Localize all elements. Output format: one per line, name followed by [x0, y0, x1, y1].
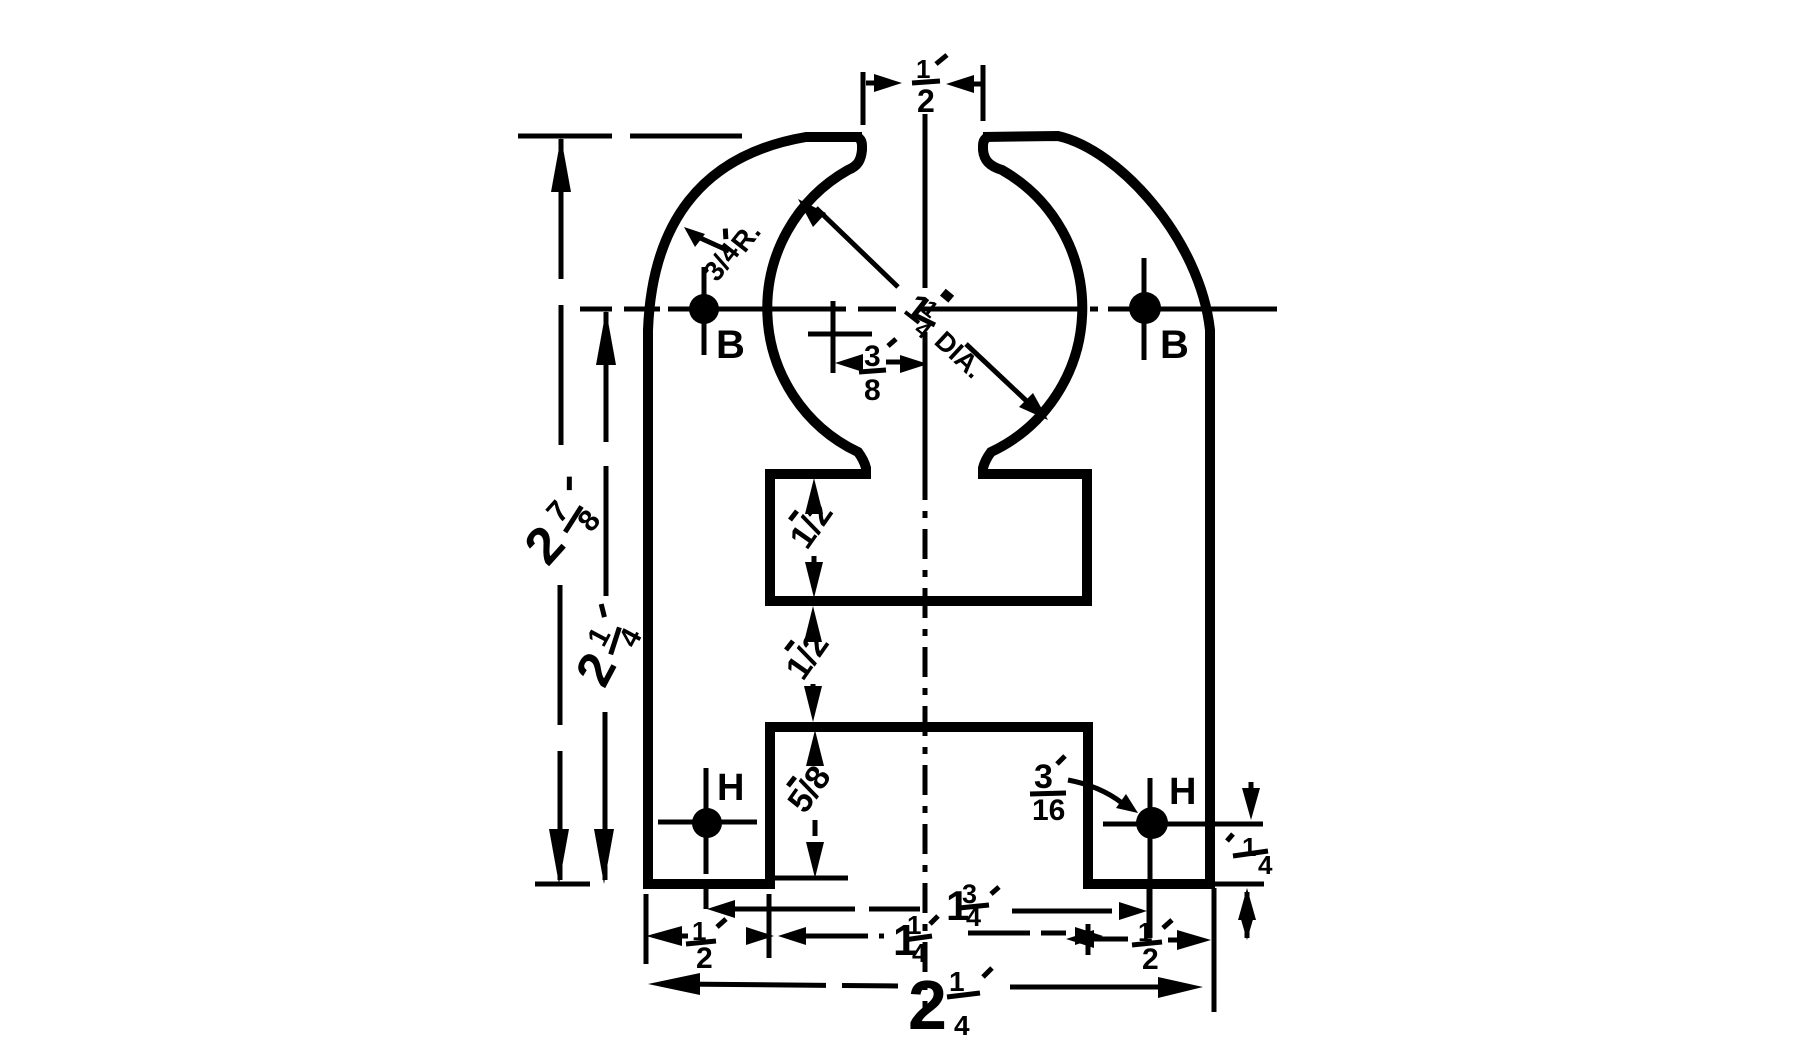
1 1/4 DIA leader arrows [798, 199, 1048, 420]
3/4 R label and leader [684, 227, 729, 251]
text 1/2 right foot [1132, 917, 1172, 976]
svg-text:3: 3 [1034, 758, 1053, 796]
svg-text:4: 4 [912, 938, 927, 968]
svg-text:4: 4 [1258, 850, 1273, 880]
top dimension 1/2 brackets and arrows [863, 65, 983, 125]
dimension text 2 7/8 [514, 476, 615, 578]
svg-text:16: 16 [1032, 794, 1065, 827]
top dimension text 1/2 [912, 54, 947, 119]
dimension text 2 1/4 [565, 603, 653, 697]
3/8 text [859, 339, 896, 407]
hole H right [1136, 807, 1168, 839]
svg-text:4: 4 [966, 902, 981, 932]
dimension 2 7/8 vertical [549, 137, 571, 884]
svg-text:3: 3 [864, 340, 881, 373]
dimension 2 1/4 overall width [648, 973, 1203, 998]
svg-text:2: 2 [1142, 943, 1159, 976]
top extension line [518, 134, 742, 139]
dimension 1 3/4 between H holes [706, 888, 1149, 924]
svg-text:H: H [717, 767, 744, 809]
text 1 3/4 [946, 879, 999, 932]
bottom edge right extension [1212, 882, 1264, 887]
horizontal center line through B holes [580, 307, 1277, 312]
5/8 dimension in bottom notch [806, 730, 824, 878]
part inner cavity (bore, slots, middle notch) [767, 137, 1087, 601]
text 2 1/4 overall [908, 966, 992, 1044]
3/8 dimension [808, 301, 928, 373]
vertical center line [923, 114, 928, 1010]
svg-text:4: 4 [954, 1010, 970, 1041]
3/16 label with leader [1030, 756, 1138, 827]
between notches 1/2 dimension [804, 606, 822, 722]
bottom notch inner thin line [770, 876, 848, 881]
text 1 1/4 [893, 910, 938, 968]
part outline outer boundary [648, 136, 1210, 884]
svg-text:B: B [1160, 323, 1189, 367]
middle notch 1/2 dimension [805, 478, 823, 598]
svg-text:8: 8 [864, 374, 881, 407]
1/4 dimension right side [1227, 782, 1273, 940]
svg-text:2: 2 [917, 83, 935, 119]
svg-text:2: 2 [696, 942, 713, 975]
svg-text:2: 2 [908, 966, 947, 1044]
hole H left [692, 808, 722, 838]
svg-text:H: H [1169, 771, 1196, 813]
svg-text:B: B [716, 323, 745, 367]
svg-text:1: 1 [949, 966, 965, 997]
dimension 2 1/4 vertical [594, 310, 616, 884]
svg-text:1: 1 [1242, 832, 1256, 862]
1 1/4 DIA label [893, 286, 949, 344]
bottom extension tick [535, 882, 590, 887]
row2 dimensions 1/2, 1 1/4, 1/2 [646, 894, 774, 964]
hole B right [1129, 292, 1161, 324]
text 1/2 left foot [686, 916, 726, 975]
hole B left [689, 294, 719, 324]
